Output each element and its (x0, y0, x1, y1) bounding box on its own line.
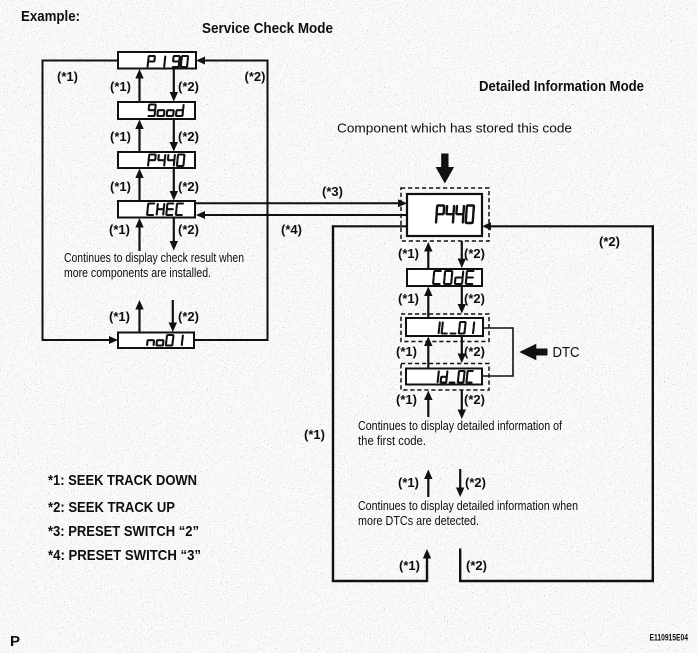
wire loop-top-left (P190 left to loop) (42, 60, 118, 62)
arrow up P190-9ood (*1) (135, 69, 143, 103)
display text "COdE" (disp-code) (433, 271, 473, 284)
svg-text:(*1): (*1) (110, 79, 131, 94)
svg-text:(*1): (*1) (396, 344, 417, 359)
arrow up P440-COdE (*1) (424, 242, 432, 270)
dashed box around IdDC (401, 364, 489, 391)
svg-text:DTC: DTC (553, 345, 580, 361)
svg-text:the first code.: the first code. (358, 434, 426, 448)
svg-text:(*2): (*2) (599, 234, 620, 249)
arrow down IL01-IdDC (*2) (458, 336, 466, 363)
arrow up 9ood-P440 (*1) (135, 120, 143, 154)
thick arrow left DTC (519, 344, 547, 360)
wire loop-left-vertical (42, 60, 44, 342)
wire loop-right-vertical (267, 60, 269, 342)
arrow up IL01-IdDC (*1) (424, 337, 432, 370)
arrow down P440-COdE (*2) (458, 241, 466, 268)
svg-text:(*1): (*1) (399, 558, 420, 573)
wire loop-bottom-right from no01 (194, 339, 269, 341)
svg-text:Example:: Example: (21, 9, 80, 25)
display text "9ood" (disp-good) (149, 105, 184, 117)
arrow down below CHEC (*2) (170, 218, 178, 251)
svg-text:E110915E04: E110915E04 (650, 633, 689, 643)
wire detail-loop left-vertical (332, 225, 334, 582)
wire detail-loop right-vertical (652, 225, 654, 582)
svg-text:(*1): (*1) (396, 392, 417, 407)
svg-text:(*2): (*2) (464, 246, 485, 261)
arrow up at bottom break (*1) (423, 549, 431, 582)
arrow up above no01 (*1) (135, 300, 143, 333)
svg-text:(*2): (*2) (178, 79, 199, 94)
svg-text:*2: SEEK TRACK UP: *2: SEEK TRACK UP (48, 499, 175, 516)
arrow up below CHEC (*1) (135, 218, 143, 251)
svg-text:(*2): (*2) (178, 309, 199, 324)
svg-text:(*1): (*1) (109, 309, 130, 324)
arrow down P190-9ood (*2) (170, 68, 178, 102)
svg-text:(*1): (*1) (398, 246, 419, 261)
bracket DTC group (483, 328, 513, 376)
svg-text:(*2): (*2) (465, 475, 486, 490)
arrow down COdE-IL01 (*2) (458, 286, 466, 314)
svg-text:*1: SEEK TRACK DOWN: *1: SEEK TRACK DOWN (48, 472, 197, 489)
svg-text:(*2): (*2) (178, 129, 199, 144)
wire loop-top-right into P190 (196, 57, 267, 65)
svg-text:Service Check Mode: Service Check Mode (202, 21, 333, 37)
svg-text:more components are installed.: more components are installed. (64, 266, 211, 280)
svg-text:*3: PRESET SWITCH “2”: *3: PRESET SWITCH “2” (48, 523, 199, 540)
svg-text:(*1): (*1) (109, 222, 130, 237)
svg-text:(*1): (*1) (398, 291, 419, 306)
display text "IL_01" (disp-il01) (439, 322, 475, 334)
display text "P 190" (disp-p190) (148, 56, 189, 67)
svg-text:Continues to display detailed: Continues to display detailed informatio… (358, 499, 578, 513)
display text "CHEC" (disp-chec) (147, 204, 183, 216)
wire detail-loop bottom-right (459, 580, 654, 582)
svg-text:Continues to display detailed: Continues to display detailed informatio… (358, 419, 562, 433)
arrow down below IdDC (*2) (458, 391, 466, 420)
svg-text:Continues to display check res: Continues to display check result when (64, 251, 244, 265)
arrow up mid pair (*1) (424, 470, 432, 498)
box display P440 (left) (118, 152, 195, 168)
display text "Id_DC" (disp-iddc) (438, 371, 473, 383)
svg-text:(*1): (*1) (398, 475, 419, 490)
svg-text:Detailed Information Mode: Detailed Information Mode (479, 79, 644, 95)
arrow down above no01 (*2) (169, 300, 177, 332)
svg-text:(*4): (*4) (281, 222, 302, 237)
svg-text:P: P (10, 633, 20, 650)
box display no01 (118, 333, 194, 349)
svg-text:*4: PRESET SWITCH “3”: *4: PRESET SWITCH “3” (48, 547, 201, 564)
dashed box around P440 (401, 188, 489, 241)
box display 9ood (118, 102, 195, 119)
wire loop-bottom-left into no01 (42, 336, 119, 344)
svg-text:(*2): (*2) (178, 179, 199, 194)
svg-text:(*1): (*1) (110, 129, 131, 144)
svg-text:(*2): (*2) (464, 291, 485, 306)
wire down at bottom break (*2) (459, 549, 461, 583)
wire detail-loop top-left (332, 225, 407, 227)
box display P190 (118, 52, 196, 69)
arrow down mid pair (*2) (456, 469, 464, 497)
display text "no01" (disp-no01) (147, 335, 183, 346)
arrow up P440-CHEC (*1) (135, 169, 143, 203)
arrow down 9ood-P440 (*2) (170, 119, 178, 152)
wire detail-loop bottom-left (332, 580, 427, 582)
display text "P440" (disp-p440b) (436, 206, 474, 224)
box display CHEC (118, 201, 195, 218)
box display IL01 (406, 318, 483, 336)
svg-text:Component which has stored thi: Component which has stored this code (337, 122, 572, 136)
wire (*4) P440 to CHEC (196, 211, 407, 219)
svg-text:(*1): (*1) (57, 69, 78, 84)
svg-text:(*1): (*1) (304, 427, 325, 442)
svg-text:more DTCs are detected.: more DTCs are detected. (358, 514, 479, 528)
svg-text:(*2): (*2) (245, 69, 266, 84)
wire detail-loop top-right into P440 (482, 222, 654, 230)
display text "P440" (disp-p440s) (148, 155, 184, 167)
box display IdDC (406, 369, 482, 385)
box display P440 (right) (407, 194, 482, 236)
dashed box around IL01 (401, 314, 489, 342)
box display COdE (407, 269, 482, 286)
svg-text:(*2): (*2) (178, 222, 199, 237)
svg-text:(*2): (*2) (464, 344, 485, 359)
svg-text:(*2): (*2) (466, 558, 487, 573)
arrow up below IdDC (*1) (424, 391, 432, 418)
svg-text:(*2): (*2) (464, 392, 485, 407)
arrow down P440-CHEC (*2) (170, 168, 178, 201)
svg-text:(*1): (*1) (110, 179, 131, 194)
svg-text:(*3): (*3) (322, 184, 343, 199)
wire (*3) CHEC to P440 (195, 199, 407, 207)
thick arrow down into P440 (436, 154, 455, 184)
arrow up COdE-IL01 (*1) (424, 287, 432, 319)
